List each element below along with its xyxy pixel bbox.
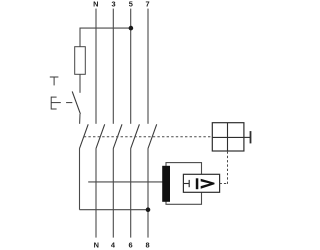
wire line 7 upper xyxy=(147,9,149,124)
mechanical linkage dashed xyxy=(84,136,213,138)
svg-text:N: N xyxy=(93,0,98,8)
switch blade pole 3-4 xyxy=(113,124,122,148)
label > of I> xyxy=(201,179,215,189)
wire resistor bottom lead xyxy=(79,74,81,93)
wire line 8 lower xyxy=(147,149,149,238)
solenoid cross horizontal xyxy=(212,136,244,138)
trip link dashed vertical xyxy=(227,152,229,184)
wire test branch lower vertical xyxy=(79,149,81,210)
solenoid cross vertical xyxy=(227,123,229,151)
wire line 6 lower xyxy=(130,149,132,238)
label I of I> xyxy=(196,178,199,189)
relay pickup rod xyxy=(183,183,189,185)
wire test tap horizontal xyxy=(80,27,131,29)
CT core (summation transformer) xyxy=(162,166,170,202)
svg-text:6: 6 xyxy=(129,240,133,249)
trip solenoid box xyxy=(212,123,244,151)
wire test branch bottom horizontal xyxy=(80,209,149,211)
switch blade test pole xyxy=(80,124,89,148)
wire line 4 lower xyxy=(112,149,114,238)
relay box I> (tripping relay U1) xyxy=(183,174,219,192)
wire CT flux line xyxy=(88,181,163,183)
wire line N upper xyxy=(95,9,97,124)
switch blade pole N xyxy=(96,124,105,148)
wire test branch stub xyxy=(79,114,81,124)
push-button actuator (test button) xyxy=(51,97,72,110)
wire resistor top lead xyxy=(79,28,81,47)
wire line 5 upper xyxy=(130,9,132,124)
label T (test button) xyxy=(50,77,59,85)
relay pickup tick xyxy=(188,180,190,187)
wire line 3 upper xyxy=(112,9,114,124)
node junction on line 8 xyxy=(146,207,151,212)
test switch blade xyxy=(72,91,80,114)
resistor (test resistor) xyxy=(75,47,86,75)
svg-text:N: N xyxy=(94,240,99,249)
wire line N lower xyxy=(95,149,97,238)
svg-text:8: 8 xyxy=(146,240,150,249)
trip link dashed horizontal xyxy=(220,183,228,185)
switch blade pole 7-8 xyxy=(148,124,157,148)
switch blade pole 5-6 xyxy=(131,124,140,148)
CT secondary winding loop xyxy=(166,163,202,205)
node junction on line 5 xyxy=(129,26,134,31)
svg-text:3: 3 xyxy=(111,0,115,8)
solenoid terminal bar xyxy=(250,131,252,143)
svg-text:5: 5 xyxy=(129,0,133,8)
solenoid output rod xyxy=(244,136,251,138)
svg-text:7: 7 xyxy=(146,0,150,8)
